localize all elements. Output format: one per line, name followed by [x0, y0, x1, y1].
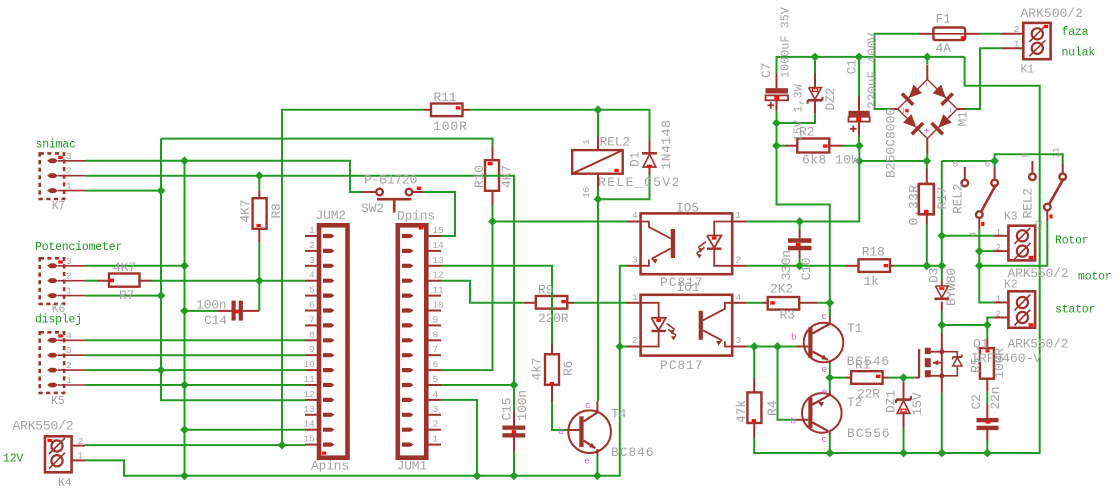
svg-text:Q1: Q1 — [973, 337, 989, 352]
wire R17 bottom link — [926, 224, 928, 266]
label C10 / 330n (rotated) — [779, 250, 814, 280]
wire 12V vertical to R11 — [282, 110, 424, 445]
svg-text:4k7: 4k7 — [530, 358, 545, 381]
svg-text:DZ2: DZ2 — [823, 88, 838, 111]
svg-text:10: 10 — [433, 300, 445, 311]
svg-text:C10: C10 — [799, 258, 814, 281]
wire C14 left to GND vertical — [185, 310, 219, 312]
svg-text:D1: D1 — [628, 151, 643, 167]
svg-text:b: b — [559, 426, 565, 437]
svg-text:Potenciometer: Potenciometer — [35, 241, 122, 254]
wire contact pin6 to pin11 link — [995, 154, 1063, 167]
svg-text:1: 1 — [66, 375, 72, 386]
capacitor C7 1000uF 35V (polarized) — [766, 73, 789, 112]
svg-text:3: 3 — [66, 151, 72, 162]
label DZ1 / 15V (rotated) — [884, 390, 926, 416]
svg-text:4: 4 — [968, 232, 979, 238]
svg-text:6: 6 — [433, 359, 439, 370]
capacitor C1 220uF 400V (polarized) — [849, 96, 870, 136]
svg-text:4: 4 — [433, 389, 439, 400]
header JUM2 Apins (15-pin) — [305, 225, 348, 457]
svg-text:1: 1 — [995, 227, 1001, 238]
wire R6 bottom to T4 base — [552, 402, 567, 430]
svg-text:ARK550/2: ARK550/2 — [13, 419, 74, 434]
transistor T1 BC546 (NPN) — [797, 316, 844, 364]
svg-text:8: 8 — [433, 329, 439, 340]
svg-text:5: 5 — [433, 374, 439, 385]
svg-text:D3: D3 — [927, 268, 942, 283]
resistor R17 0.33R (vertical, shunt) — [919, 168, 934, 224]
label K3 / REL2 relay contact labels — [951, 147, 1062, 238]
svg-text:220uF 400V: 220uF 400V — [865, 33, 880, 109]
wire R2 right node — [843, 145, 860, 147]
svg-text:15V 1,3W: 15V 1,3W — [793, 84, 806, 142]
svg-text:1: 1 — [632, 292, 638, 303]
svg-text:REL2: REL2 — [951, 184, 966, 214]
wire left vertical B (GND net) — [184, 161, 186, 476]
svg-text:11: 11 — [433, 285, 445, 296]
wire K5.1 row to JUM2.11 — [86, 384, 305, 386]
wire JUM1.13 to R6 — [441, 266, 552, 344]
label D1 / 1N4148 (rotated) — [628, 120, 675, 170]
svg-text:5: 5 — [309, 285, 315, 296]
fuse F1 4A — [919, 28, 980, 41]
svg-text:13: 13 — [433, 255, 445, 266]
svg-text:2: 2 — [66, 271, 72, 282]
svg-text:e: e — [822, 387, 828, 398]
resistor R5 100R (vertical) — [980, 338, 994, 391]
wire R8 top to snimac.2 row — [258, 176, 260, 191]
wire D22 top — [814, 57, 816, 74]
svg-text:4: 4 — [736, 292, 742, 303]
resistor R7 4K7 — [97, 274, 152, 287]
capacitor C14 100n — [218, 301, 259, 321]
svg-text:11: 11 — [1051, 147, 1062, 159]
resistor R4 47k (vertical) — [747, 378, 761, 438]
svg-text:R8: R8 — [269, 203, 284, 218]
label R2 / 6k8 10W — [799, 125, 860, 168]
wire R17 top link — [926, 161, 928, 169]
wire top DC rail — [777, 57, 965, 73]
svg-text:C2: C2 — [969, 394, 984, 409]
svg-text:JUM2: JUM2 — [316, 208, 346, 223]
svg-text:1000uF 35V: 1000uF 35V — [780, 7, 793, 78]
relay contact K3 REL2 pole A (pins 8/6/4) — [962, 167, 998, 229]
svg-text:REL2: REL2 — [1021, 188, 1036, 218]
svg-text:C1: C1 — [845, 59, 860, 75]
label D3 / BYW80 (rotated) — [927, 268, 960, 306]
resistor R6 4k7 (vertical) — [545, 344, 559, 403]
wire R8 bottom to R7 row — [258, 242, 260, 280]
wire K6.1 row — [86, 295, 161, 297]
wire T2 collector to + rail — [829, 435, 831, 454]
svg-text:R7: R7 — [119, 288, 134, 303]
svg-text:14: 14 — [433, 240, 445, 251]
label R17 / 0.33R (rotated) — [907, 184, 951, 225]
svg-text:e: e — [584, 456, 590, 467]
label JUM1 Dpins + pin numbers — [397, 208, 444, 473]
svg-text:6: 6 — [309, 300, 315, 311]
svg-text:~: ~ — [900, 108, 911, 114]
wire rotor pin1 row — [942, 235, 994, 237]
svg-text:12: 12 — [1034, 219, 1045, 231]
svg-text:3: 3 — [309, 255, 315, 266]
svg-text:2: 2 — [66, 360, 72, 371]
wire R3 right to T1 collector node — [817, 302, 830, 304]
svg-text:3: 3 — [66, 256, 72, 267]
svg-text:7: 7 — [433, 344, 439, 355]
relay coil REL2 RELE_G5V2 — [572, 136, 623, 188]
svg-text:R5: R5 — [969, 358, 984, 373]
svg-text:13: 13 — [303, 404, 315, 415]
label IO5 / PC817 + pin numbers — [632, 201, 742, 290]
wire R5 top — [986, 325, 988, 339]
svg-text:R4: R4 — [765, 400, 780, 416]
label Q1 / IRF9460-V — [971, 337, 1041, 367]
svg-text:C14: C14 — [204, 313, 227, 328]
wire left vertical A (R10 top net) — [161, 139, 493, 146]
svg-text:1: 1 — [78, 451, 84, 462]
svg-text:12: 12 — [433, 270, 445, 281]
svg-text:1k: 1k — [864, 274, 880, 289]
bridge rectifier M1 B250C8000 — [890, 65, 966, 154]
svg-text:22R: 22R — [857, 387, 880, 402]
svg-text:K2: K2 — [1004, 279, 1018, 292]
MOSFET Q1 IRF9460-V (P-channel) — [915, 333, 962, 392]
svg-text:R10: R10 — [472, 165, 487, 188]
svg-text:C7: C7 — [759, 63, 774, 78]
wire K5.3 row to JUM2.9 — [86, 354, 305, 356]
wire R10 bottom to IO5.4 and JUM1.6 — [493, 206, 628, 222]
label stator connector — [995, 294, 1068, 352]
label R6 / 4k7 (rotated) — [530, 358, 577, 381]
svg-text:JUM1: JUM1 — [397, 459, 428, 474]
svg-text:4K7: 4K7 — [113, 260, 136, 275]
svg-text:IO5: IO5 — [676, 201, 699, 216]
wire D3 bottom row / stator.2 — [942, 311, 994, 326]
wire IO1.2 to emitter vertical — [620, 346, 627, 348]
label R4 / 47k (rotated) — [734, 400, 780, 423]
svg-text:1: 1 — [309, 225, 315, 236]
wire R4 top — [753, 347, 755, 379]
label K5 + pin numbers — [51, 330, 72, 408]
wire C2 bottom to + rail — [986, 441, 988, 453]
wire relay coil pin1 drop — [597, 110, 599, 137]
connector stator ARK550/2 — [994, 291, 1035, 328]
wire IO5.2 row to R18 — [747, 265, 846, 267]
resistor R2 6k8 10W — [785, 139, 843, 153]
svg-text:F1: F1 — [936, 12, 952, 27]
svg-text:2: 2 — [632, 335, 638, 346]
wire C10 bottom — [799, 258, 801, 266]
svg-text:4: 4 — [309, 270, 315, 281]
svg-text:4K7: 4K7 — [500, 165, 515, 188]
label R18 / 1k — [862, 245, 885, 290]
svg-text:100R: 100R — [433, 119, 468, 134]
label R7 / 4K7 — [113, 260, 136, 303]
wire 12V row K4.2 to JUM2.15 — [85, 444, 305, 446]
wire left contact common down to stator.1 — [979, 229, 994, 302]
svg-text:9: 9 — [433, 314, 439, 325]
svg-text:B250C8000: B250C8000 — [884, 108, 899, 178]
wire IO5.1 to C10/C1 node — [747, 161, 860, 222]
wire motor row to right contact common — [979, 221, 1047, 265]
wire contact feed vertical — [941, 161, 943, 281]
resistor R11 100R — [424, 104, 470, 117]
diode D3 BYW80 — [934, 281, 949, 311]
label T2 / BC556 + bce — [791, 387, 891, 446]
svg-text:7: 7 — [309, 314, 315, 325]
svg-text:9: 9 — [1020, 152, 1031, 158]
wire R2 left node — [777, 145, 786, 147]
svg-text:P-B1720: P-B1720 — [364, 173, 417, 188]
svg-text:c: c — [585, 400, 591, 411]
svg-text:T4: T4 — [611, 407, 627, 422]
svg-text:4: 4 — [632, 210, 638, 221]
svg-text:Apins: Apins — [311, 459, 349, 474]
svg-text:T1: T1 — [847, 321, 863, 336]
svg-text:1: 1 — [736, 210, 742, 221]
label R1 / 22R — [855, 358, 880, 402]
capacitor C2 22n — [977, 404, 999, 441]
capacitor C15 100n — [502, 411, 525, 452]
header JUM1 Dpins (15-pin) — [398, 225, 441, 457]
svg-text:3: 3 — [736, 335, 742, 346]
svg-text:2: 2 — [433, 419, 439, 430]
svg-text:R17: R17 — [935, 187, 950, 210]
svg-text:15: 15 — [303, 434, 315, 445]
wire DZ1 bottom to + rail — [903, 428, 905, 454]
svg-text:faza: faza — [1062, 26, 1089, 39]
wire K5.4 row to JUM2.8 — [86, 339, 305, 341]
label C2 / 22n (rotated) — [969, 387, 1003, 410]
pushbutton SW2 P-B1720 — [362, 187, 424, 213]
svg-text:K5: K5 — [51, 395, 65, 408]
svg-text:-: - — [923, 82, 934, 88]
svg-text:R1: R1 — [855, 358, 871, 373]
label K6 + pin numbers — [52, 256, 72, 316]
label R10 / 4K7 (rotated) — [472, 165, 515, 188]
svg-text:15: 15 — [433, 225, 445, 236]
svg-text:snimac: snimac — [36, 139, 77, 152]
svg-text:2: 2 — [995, 242, 1001, 253]
wire C7 bottom / D22 bottom / R2 left vertical, to T1 collector — [777, 112, 830, 317]
zener diode DZ1 15V — [896, 382, 911, 428]
capacitor C10 330n — [788, 229, 812, 259]
svg-text:1: 1 — [581, 139, 592, 145]
svg-text:RELE_G5V2: RELE_G5V2 — [598, 175, 681, 190]
svg-text:1: 1 — [1014, 38, 1020, 49]
svg-text:8: 8 — [309, 329, 315, 340]
svg-text:R11: R11 — [434, 90, 457, 105]
svg-text:4K7: 4K7 — [238, 200, 253, 223]
wire bridge bottom to R17 node — [926, 153, 928, 161]
label R5 / 100R (rotated) — [969, 348, 1008, 379]
svg-text:K6: K6 — [52, 303, 66, 316]
optocoupler IO1 PC817 — [627, 295, 747, 356]
resistor R1 22R — [846, 371, 889, 384]
svg-text:47k: 47k — [734, 400, 749, 423]
svg-text:R6: R6 — [561, 361, 576, 376]
svg-text:ARK500/2: ARK500/2 — [1021, 6, 1083, 21]
resistor R9 220R — [524, 296, 574, 309]
svg-text:2: 2 — [736, 254, 742, 265]
label R9 / 220R — [538, 283, 569, 327]
svg-text:330n: 330n — [779, 250, 794, 280]
label C7 / 1000uF 35V (rotated) — [759, 7, 793, 78]
svg-text:8: 8 — [953, 158, 959, 169]
connector K4 ARK550/2 12V — [45, 436, 85, 472]
label REL2 / RELE_G5V2 + coil pins — [581, 135, 681, 199]
svg-text:2: 2 — [1014, 24, 1020, 35]
optocoupler IO5 PC817 — [627, 213, 747, 274]
wire snimac.2 long row to C15/JUM1.5 net — [86, 176, 514, 385]
svg-text:15V: 15V — [910, 392, 925, 415]
svg-text:c: c — [822, 434, 828, 445]
svg-text:PC817: PC817 — [660, 358, 704, 373]
connector K5 displej (4-pin, dashed) — [40, 332, 86, 393]
connector K6 Potenciometer (3-pin, dashed) — [40, 258, 86, 304]
wire JUM1.4 to GND rail — [441, 400, 477, 476]
wire K6.2/R7 row to JUM2.4 — [86, 280, 98, 282]
label IO1 / PC817 + pin numbers — [632, 280, 742, 373]
label T4 / BC846 + bce — [559, 400, 655, 467]
wire R3 left to IO1.4 — [747, 302, 763, 304]
svg-text:22n: 22n — [988, 387, 1003, 410]
svg-text:1N4148: 1N4148 — [659, 120, 674, 170]
label R8 / 4K7 (rotated) — [238, 200, 284, 223]
resistor R8 4K7 (vertical) — [253, 191, 267, 243]
resistor R10 4K7 (vertical) — [485, 146, 499, 206]
wire C15 bottom to GND rail — [513, 452, 515, 476]
svg-text:R3: R3 — [780, 308, 795, 323]
svg-text:9: 9 — [309, 344, 315, 355]
wire R11 right to relay/D1 — [470, 110, 650, 140]
svg-text:Dpins: Dpins — [397, 208, 435, 223]
svg-text:e: e — [822, 364, 828, 375]
wire R1 right to gate / DZ1 — [888, 377, 914, 379]
svg-text:IO1: IO1 — [677, 280, 700, 295]
svg-text:1: 1 — [66, 181, 72, 192]
wire relay pin16 / D1 anode / T4 collector node — [597, 188, 599, 401]
label R3 / 2K2 — [770, 282, 795, 323]
label M1 / B250C8000 (rotated) — [884, 108, 971, 178]
wire bridge top — [926, 57, 928, 65]
svg-text:BC846: BC846 — [611, 445, 655, 460]
transistor T2 BC556 (PNP) — [797, 391, 842, 435]
svg-text:R9: R9 — [538, 283, 553, 298]
svg-text:c: c — [822, 311, 828, 322]
wire R5 bottom to C2 — [986, 391, 988, 404]
label SW2 P-B1720 — [361, 173, 417, 217]
svg-text:3: 3 — [66, 345, 72, 356]
svg-text:K7: K7 — [52, 200, 65, 213]
wire rotor pin2 row — [979, 250, 994, 252]
wire F1 right to K1.2 — [980, 33, 1002, 35]
wire R9 to IO1.1 — [574, 302, 627, 304]
wire D22 bottom link — [777, 114, 816, 123]
diode D1 1N4148 (relay flyback) — [642, 139, 657, 175]
label C14 / 100n — [196, 298, 227, 329]
wire C1 bottom — [858, 136, 860, 146]
connector K1 ARK500/2 faza/nulak — [1002, 23, 1051, 59]
svg-text:6: 6 — [985, 158, 991, 169]
wire C15 top node — [513, 385, 515, 411]
svg-text:4: 4 — [66, 330, 72, 341]
wire T2 base drop — [778, 347, 797, 420]
label K2 rotor connector — [995, 227, 1068, 292]
svg-text:1: 1 — [433, 434, 439, 445]
svg-text:stator: stator — [1055, 304, 1095, 317]
svg-text:DZ1: DZ1 — [884, 390, 899, 413]
wire faza: F1 left to bridge AC1 — [875, 34, 920, 109]
svg-text:nulak: nulak — [1062, 47, 1096, 60]
svg-text:220R: 220R — [538, 311, 569, 326]
svg-text:b: b — [791, 332, 797, 343]
wire C1 top — [858, 57, 860, 97]
wire K6.3 row — [86, 265, 185, 267]
label C15 / 100n (rotated) — [500, 390, 531, 420]
svg-text:6k8 10W: 6k8 10W — [802, 153, 860, 168]
wire K4.1 to GND rail / rail to IO emitters — [85, 266, 627, 476]
svg-text:2: 2 — [66, 166, 72, 177]
label T1 / BC546 + bce — [791, 311, 890, 375]
svg-text:REL2: REL2 — [600, 135, 630, 150]
wire T4 emitter to GND rail — [596, 455, 598, 476]
svg-text:16: 16 — [581, 186, 592, 198]
wire bridge minus row — [859, 146, 927, 161]
svg-text:12: 12 — [303, 389, 315, 400]
wire K5.2 row to JUM2.10 — [86, 369, 305, 371]
svg-text:motor: motor — [1078, 271, 1112, 284]
wire snimac.1 to left vertical — [86, 190, 161, 192]
svg-text:SW2: SW2 — [361, 201, 384, 216]
resistor R3 2K2 — [763, 297, 818, 310]
label K1 ARK500/2 + pin numbers — [1014, 6, 1083, 77]
wire snimac.3 to SW2 left — [86, 161, 362, 192]
svg-text:Rotor: Rotor — [1055, 235, 1089, 248]
label K4 ARK550/2 + pin numbers — [13, 419, 84, 491]
svg-text:10: 10 — [303, 359, 315, 370]
label F1 / 4A — [936, 12, 952, 57]
wire T1 collector link — [829, 303, 831, 317]
svg-text:3: 3 — [632, 254, 638, 265]
svg-text:b: b — [791, 416, 797, 427]
svg-text:2K2: 2K2 — [770, 282, 793, 297]
svg-text:R18: R18 — [862, 245, 885, 260]
svg-text:1: 1 — [995, 294, 1001, 305]
wire R18 right to R17 bottom / contact feed — [894, 265, 942, 267]
svg-text:12V: 12V — [3, 453, 23, 466]
svg-text:2: 2 — [78, 436, 84, 447]
svg-text:14: 14 — [303, 419, 315, 430]
wire C14 right up to R7 row — [258, 281, 260, 311]
wire JUM1.12 to R9 — [441, 281, 524, 303]
label DZ2 / 15V 1,3W (rotated) — [793, 84, 839, 142]
svg-text:0.33R: 0.33R — [907, 184, 922, 225]
svg-text:100n: 100n — [196, 298, 226, 313]
svg-text:4A: 4A — [936, 41, 952, 56]
wire C10 top drop — [799, 222, 801, 230]
svg-text:K1: K1 — [1021, 64, 1035, 77]
wire R1 left to T1/T2 emitters — [829, 364, 831, 392]
wire nulak: K1.1 to bridge AC2 — [965, 48, 1002, 109]
svg-text:BYW80: BYW80 — [944, 268, 959, 306]
svg-text:+: + — [924, 128, 930, 139]
label C1 / 220uF 400V (rotated) — [845, 33, 881, 109]
svg-text:100R: 100R — [992, 348, 1007, 379]
wire DC rail to bottom-right rail (long path) — [754, 57, 1039, 453]
